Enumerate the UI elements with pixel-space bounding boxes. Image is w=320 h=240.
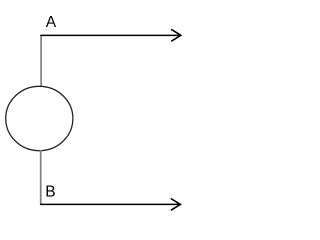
wire: top horizontal line with arrow (terminal A) — [40, 29, 181, 41]
wire: bottom vertical gray segment from source bottom to node B corner — [40, 150, 42, 204]
source circle (circular element) — [6, 86, 73, 150]
wire: top vertical gray segment from node A corner to source top — [40, 35, 42, 87]
svg-text:A: A — [46, 14, 57, 31]
svg-text:B: B — [45, 184, 55, 201]
wire: bottom horizontal line with arrow (terminal B) — [40, 199, 180, 211]
